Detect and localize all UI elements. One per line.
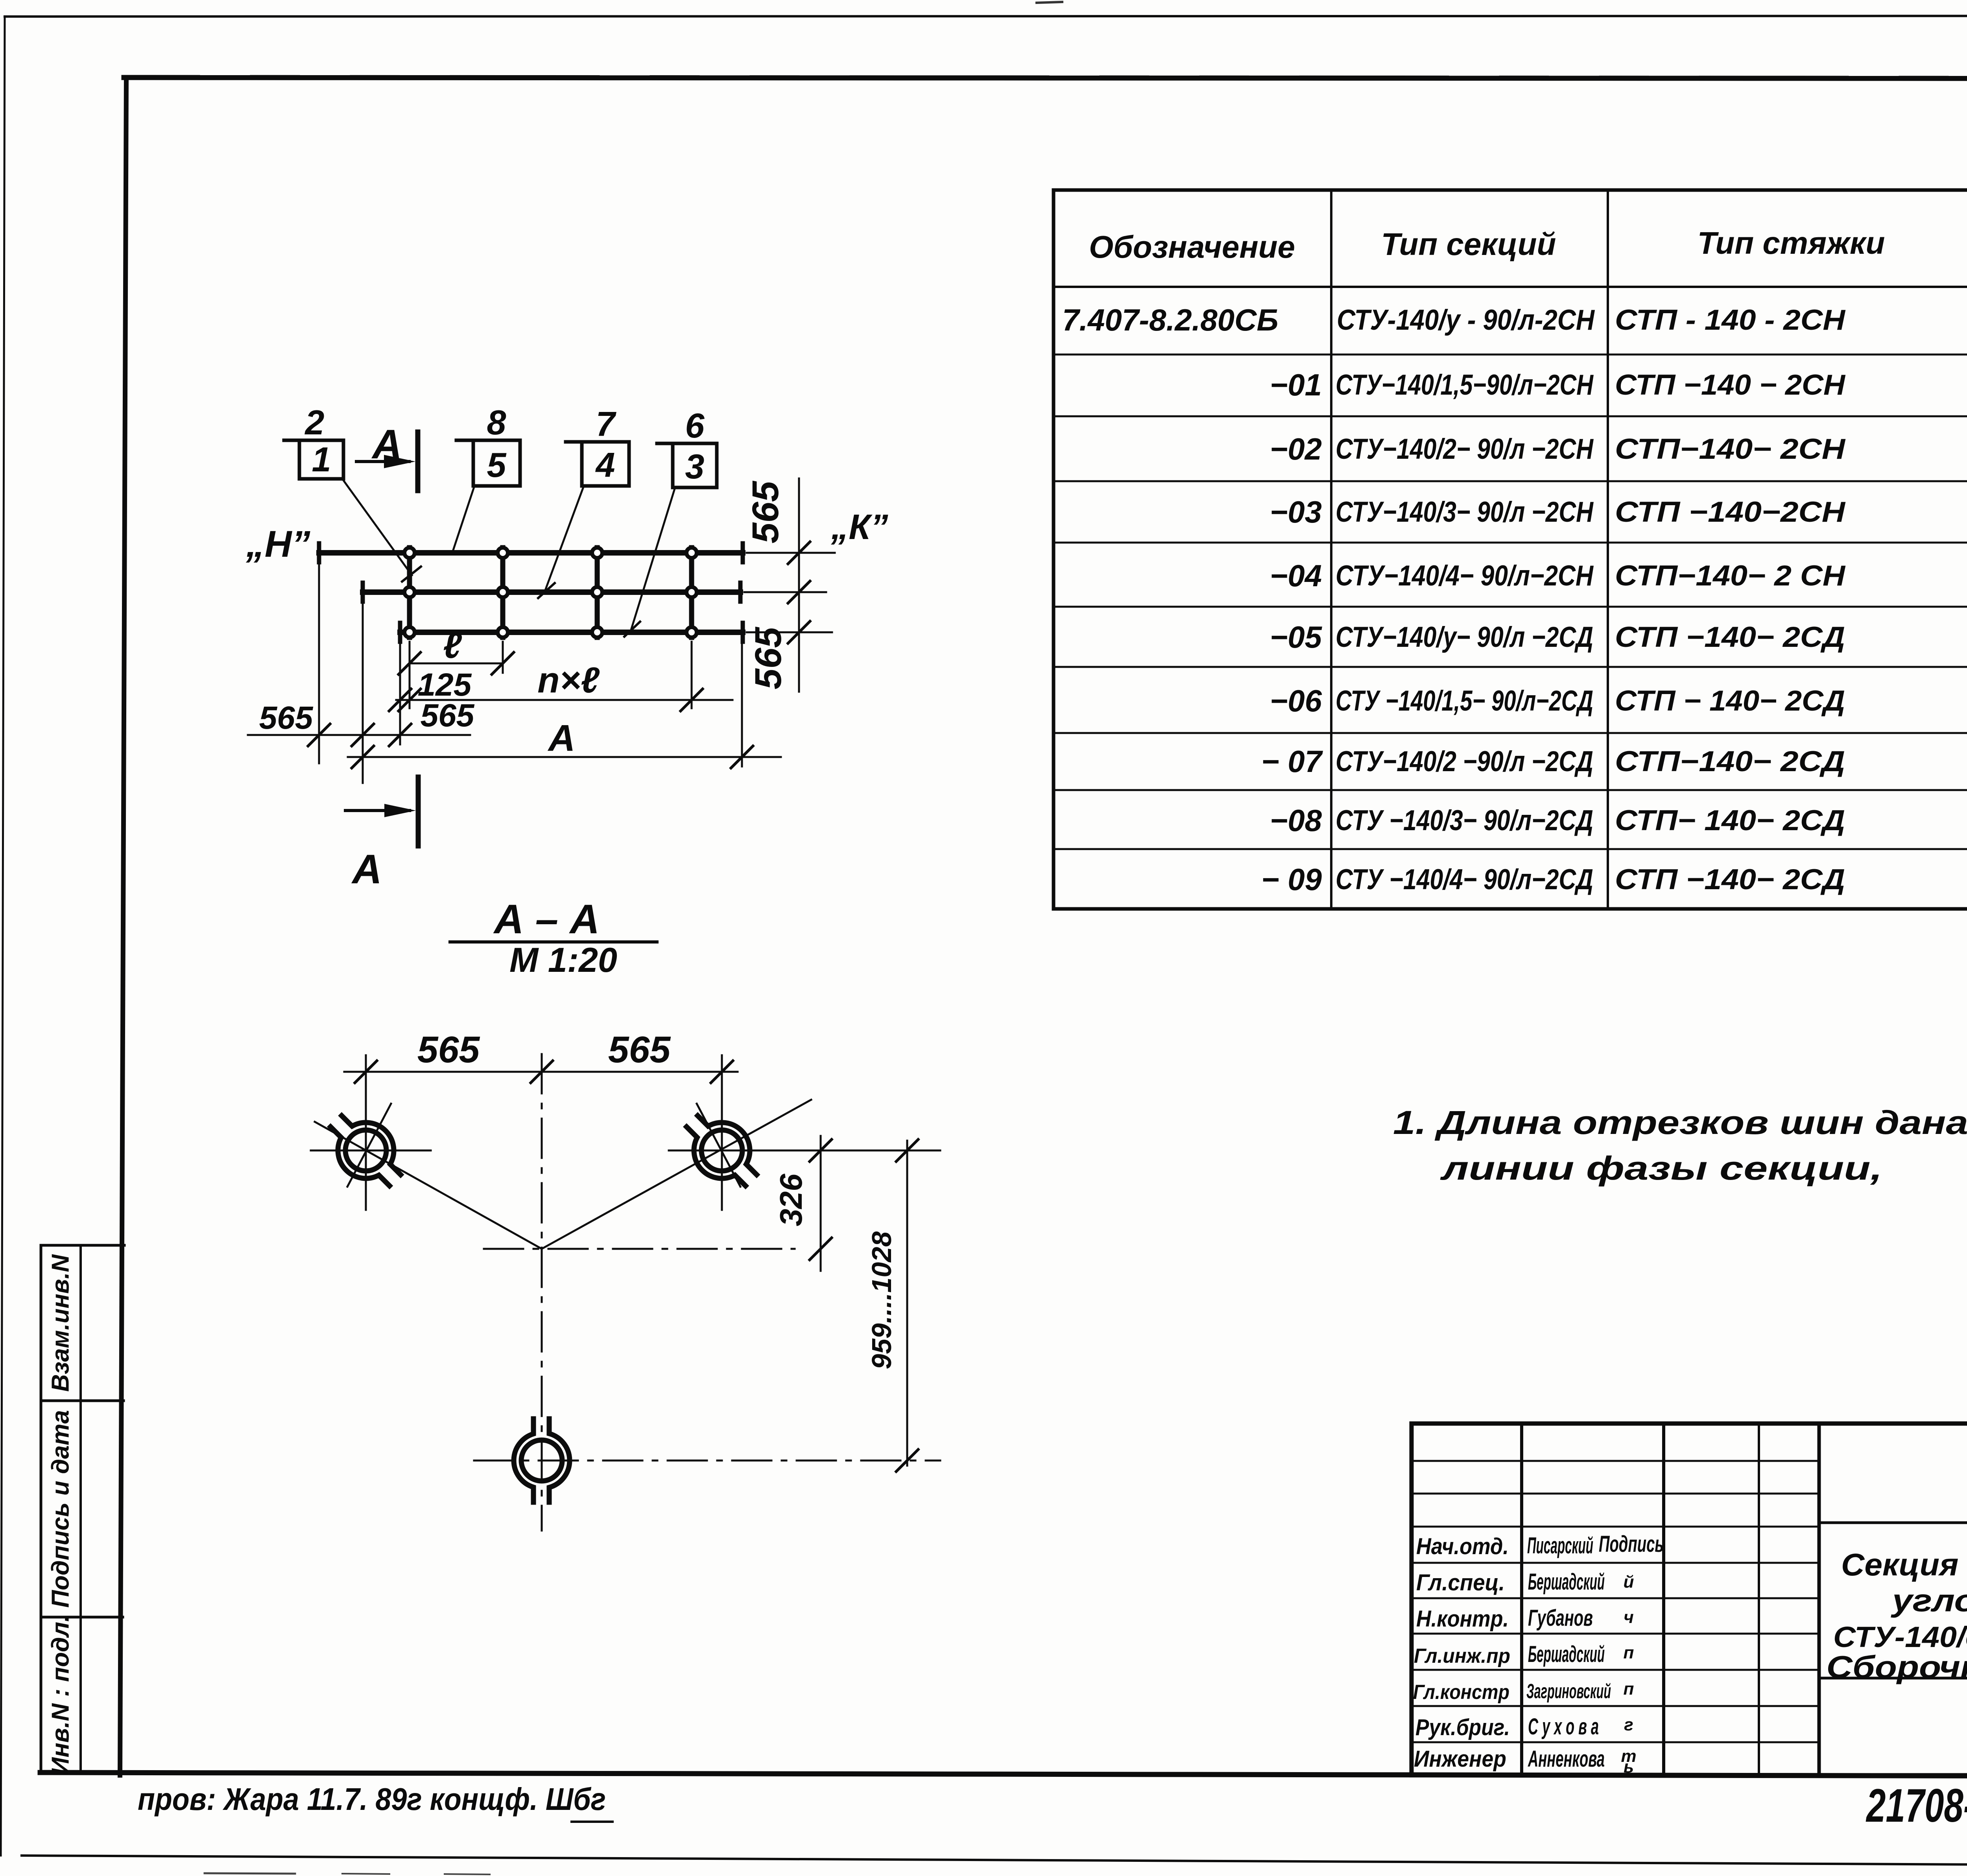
table outer box	[1054, 190, 1967, 909]
doc number cell bottom	[1819, 1521, 1967, 1524]
svg-text:СТП− 140− 2СД: СТП− 140− 2СД	[1615, 805, 1845, 836]
section cut marker A bottom	[345, 777, 418, 846]
table row lines	[1054, 354, 1967, 356]
svg-text:„К”: „К”	[830, 508, 888, 547]
svg-text:пров: Жара 11.7. 89г конщф.: пров: Жара 11.7. 89г конщф. Шбг	[138, 1782, 606, 1817]
table column 2	[1336, 304, 1595, 896]
svg-text:СТП − 140− 2СД: СТП − 140− 2СД	[1615, 685, 1845, 717]
svg-text:8: 8	[487, 403, 506, 442]
svg-text:СТП−140− 2СН: СТП−140− 2СН	[1615, 433, 1845, 465]
extension lines below buses	[319, 562, 742, 783]
note text	[1393, 1104, 1967, 1187]
bus end ticks	[319, 543, 743, 642]
axis chain line bottom phase	[474, 1460, 940, 1462]
svg-text:Подпись и дата: Подпись и дата	[47, 1410, 74, 1608]
dimension line 565 565 top	[344, 1061, 738, 1083]
svg-text:5: 5	[487, 445, 507, 484]
parts table	[1054, 190, 1967, 909]
diagonal from phase K to apex	[542, 1100, 811, 1249]
svg-text:−03: −03	[1270, 495, 1322, 529]
table column 3	[1615, 304, 1845, 896]
section cut marker A top	[356, 432, 418, 491]
svg-text:п: п	[1624, 1643, 1634, 1662]
dimension 326	[810, 1136, 832, 1271]
svg-text:СТУ-140/у - 90/л-2СН: СТУ-140/у - 90/л-2СН	[1337, 304, 1595, 336]
bus line 3 (bottom phase)	[400, 630, 743, 635]
title block	[1412, 1424, 1967, 1775]
svg-text:Загриновский: Загриновский	[1526, 1680, 1611, 1703]
svg-text:СТП −140−2СН: СТП −140−2СН	[1615, 496, 1845, 528]
scan speck top	[1037, 2, 1062, 3]
svg-text:565: 565	[417, 1029, 480, 1071]
tie crossbar 4	[689, 548, 694, 637]
svg-text:СТП −140− 2СД: СТП −140− 2СД	[1615, 864, 1845, 896]
svg-text:й: й	[1624, 1572, 1634, 1592]
signature squiggles	[1621, 1572, 1636, 1776]
svg-text:−05: −05	[1270, 620, 1323, 654]
phase L tube symbol	[514, 1419, 570, 1502]
svg-text:СТУ−140/у− 90/л −2СД: СТУ−140/у− 90/л −2СД	[1336, 621, 1593, 653]
svg-text:Тип секций: Тип секций	[1381, 227, 1556, 262]
svg-text:С у х о в а: С у х о в а	[1528, 1714, 1599, 1739]
tie crossbar 3	[595, 548, 600, 637]
table header text	[1089, 203, 1967, 287]
table column lines	[1330, 190, 1332, 909]
callout flag 2/1	[284, 440, 412, 575]
svg-text:СТП−140− 2 СН: СТП−140− 2 СН	[1615, 560, 1845, 592]
svg-text:Обозначение: Обозначение	[1089, 229, 1295, 264]
phase H tube symbol	[317, 1101, 415, 1200]
svg-text:п: п	[1624, 1679, 1634, 1699]
dimension 125 and n x l	[389, 689, 733, 711]
svg-text:− 09: − 09	[1261, 862, 1322, 897]
svg-text:7.407-8.2.80СБ: 7.407-8.2.80СБ	[1062, 303, 1279, 337]
diagonal cross phase H	[347, 1104, 391, 1187]
svg-text:565: 565	[259, 700, 314, 736]
svg-text:СТУ −140/3− 90/л−2СД: СТУ −140/3− 90/л−2СД	[1336, 805, 1593, 836]
svg-text:Бершадский: Бершадский	[1528, 1641, 1605, 1667]
svg-text:Инженер: Инженер	[1414, 1746, 1506, 1772]
description lines	[1827, 1547, 1967, 1684]
svg-text:СТУ−140/4− 90/л−2СН: СТУ−140/4− 90/л−2СН	[1336, 560, 1594, 592]
left margin stamp boxes	[41, 1245, 124, 1773]
svg-text:Секция токопровода: Секция токопровода	[1841, 1547, 1967, 1582]
callout flag 7/4	[545, 442, 629, 590]
svg-text:Гл.инж.пр: Гл.инж.пр	[1414, 1645, 1510, 1667]
svg-text:−08: −08	[1270, 803, 1322, 838]
svg-text:Гл.констр: Гл.констр	[1413, 1681, 1509, 1704]
bus line 2 (middle phase)	[363, 589, 740, 595]
svg-text:ь: ь	[1624, 1757, 1634, 1776]
scan specks bottom edge	[205, 1873, 295, 1874]
svg-text:СТУ−140/3− 90/л −2СН: СТУ−140/3− 90/л −2СН	[1336, 496, 1594, 528]
section A-A labels	[417, 896, 897, 1369]
description cell bottom	[1819, 1677, 1967, 1680]
svg-text:СТУ−140/2 −90/л −2СД: СТУ−140/2 −90/л −2СД	[1336, 746, 1593, 777]
axis chain line vertical	[541, 1054, 543, 1531]
svg-text:ч: ч	[1624, 1608, 1634, 1627]
svg-text:угловая левая: угловая левая	[1890, 1583, 1967, 1618]
svg-text:−01: −01	[1270, 367, 1322, 402]
svg-text:21708-03: 21708-03	[1866, 1779, 1967, 1832]
svg-text:СТП −140 − 2СН: СТП −140 − 2СН	[1615, 369, 1845, 401]
table column 1	[1062, 303, 1323, 897]
svg-text:СТУ−140/1,5−90/л−2СН: СТУ−140/1,5−90/л−2СН	[1336, 369, 1594, 401]
svg-text:−02: −02	[1270, 432, 1322, 466]
svg-text:326: 326	[773, 1174, 808, 1226]
svg-text:2: 2	[304, 403, 325, 442]
diagonal cross phase K	[697, 1104, 740, 1187]
svg-text:СТУ −140/1,5− 90/л−2СД: СТУ −140/1,5− 90/л−2СД	[1336, 685, 1593, 717]
callout flag 8/5	[453, 440, 520, 550]
svg-text:−04: −04	[1270, 558, 1322, 593]
svg-text:СТП - 140 - 2СН: СТП - 140 - 2СН	[1615, 304, 1845, 336]
svg-text:1. Длина отрезков шин дана по: 1. Длина отрезков шин дана по осевой	[1393, 1104, 1967, 1141]
svg-text:565: 565	[747, 627, 789, 690]
dimension 565 565 left	[248, 724, 470, 746]
svg-text:6: 6	[685, 406, 705, 445]
title block vertical lines left part	[1520, 1424, 1523, 1775]
svg-text:А – А: А – А	[493, 896, 600, 942]
svg-text:Губанов: Губанов	[1528, 1605, 1593, 1631]
dimension 959-1028	[896, 1139, 918, 1472]
svg-text:ℓ: ℓ	[443, 626, 462, 666]
callout flag 6/3	[631, 443, 717, 629]
svg-text:СТУ-140/е-90/л-2СН(2СД): СТУ-140/е-90/л-2СН(2СД)	[1833, 1621, 1967, 1653]
svg-text:565: 565	[608, 1029, 671, 1071]
dimension A overall	[348, 746, 781, 768]
svg-text:Писарский: Писарский	[1527, 1533, 1593, 1558]
table header line	[1054, 286, 1967, 288]
svg-text:Инв.N : подл.: Инв.N : подл.	[47, 1615, 74, 1775]
svg-text:М 1:20: М 1:20	[509, 940, 617, 979]
center line horizontal phase H	[311, 1150, 431, 1152]
signing rows labels	[1413, 1534, 1510, 1772]
svg-text:4: 4	[595, 445, 615, 484]
phase K tube symbol	[673, 1101, 771, 1200]
svg-text:А: А	[371, 421, 402, 467]
dimension l	[399, 652, 514, 674]
tie crossbar 1	[407, 548, 412, 637]
svg-text:А: А	[351, 846, 382, 892]
svg-text:565: 565	[421, 698, 475, 733]
svg-text:959....1028: 959....1028	[866, 1232, 897, 1369]
signing rows names	[1526, 1533, 1611, 1772]
svg-text:линии фазы секции,: линии фазы секции,	[1440, 1150, 1882, 1187]
plan view of bus section	[248, 432, 835, 846]
svg-text:7: 7	[596, 404, 617, 443]
svg-text:СТП −140− 2СД: СТП −140− 2СД	[1615, 621, 1845, 653]
svg-text:n×ℓ: n×ℓ	[537, 660, 600, 700]
svg-text:Тип стяжки: Тип стяжки	[1698, 225, 1885, 260]
center line vertical phase K	[721, 1055, 723, 1210]
svg-text:„Н”: „Н”	[245, 523, 310, 565]
leader end slashes	[402, 567, 640, 637]
svg-text:СТУ −140/4− 90/л−2СД: СТУ −140/4− 90/л−2СД	[1336, 864, 1593, 896]
title block outer box	[1412, 1424, 1967, 1775]
center line horizontal phase K	[669, 1150, 940, 1152]
svg-text:− 07: − 07	[1261, 744, 1323, 779]
plan view labels	[245, 403, 888, 892]
svg-text:Нач.отд.: Нач.отд.	[1416, 1534, 1509, 1559]
svg-text:Гл.спец.: Гл.спец.	[1416, 1570, 1505, 1595]
svg-text:565: 565	[745, 481, 786, 544]
center line vertical phase H	[365, 1055, 367, 1210]
svg-text:Рук.бриг.: Рук.бриг.	[1415, 1715, 1510, 1740]
axis chain line horizontal	[484, 1248, 795, 1250]
svg-text:Н.контр.: Н.контр.	[1416, 1606, 1509, 1632]
svg-text:Сборочный чертеж: Сборочный чертеж	[1827, 1649, 1967, 1684]
junction nodes	[404, 548, 697, 637]
bus line 1 (top phase)	[319, 550, 743, 556]
svg-text:А: А	[548, 717, 576, 759]
svg-text:1: 1	[312, 440, 331, 479]
svg-text:Взам.инв.N: Взам.инв.N	[47, 1254, 74, 1392]
svg-text:г: г	[1624, 1715, 1633, 1734]
right dimension line 565/565	[744, 478, 835, 692]
title block left rows	[1412, 1461, 1819, 1742]
section title underline	[450, 940, 657, 944]
svg-text:СТУ−140/2− 90/л −2СН: СТУ−140/2− 90/л −2СН	[1336, 433, 1594, 465]
svg-text:Подпись: Подпись	[1599, 1531, 1664, 1557]
tie crossbar 2	[500, 548, 506, 637]
section A-A view	[311, 942, 940, 1531]
svg-text:Анненкова: Анненкова	[1528, 1746, 1605, 1772]
svg-text:СТП−140− 2СД: СТП−140− 2СД	[1615, 746, 1845, 777]
svg-text:−06: −06	[1270, 683, 1322, 718]
svg-text:3: 3	[685, 447, 705, 486]
svg-text:Бершадский: Бершадский	[1528, 1569, 1605, 1595]
diagonal from phase H to apex	[315, 1122, 542, 1249]
